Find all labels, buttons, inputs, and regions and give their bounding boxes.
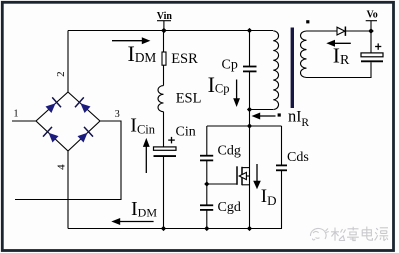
wire: bottom rail [68, 228, 282, 230]
svg-text:3: 3 [115, 109, 120, 120]
arrow IDM top (differential-mode current, rightward) [112, 37, 150, 44]
wire: Cdg to Cgd segment (gate node) [206, 160, 208, 205]
wire: node 1 AC stub (open left end) [12, 120, 36, 122]
wire: ESR to ESL [163, 65, 165, 85]
junction: MOSFET source on bottom rail [247, 226, 252, 231]
arrow ICp (downward) [233, 80, 240, 108]
wire: Cout bottom down and secondary bottom return [307, 62, 372, 77]
arrow ID (downward) [253, 164, 261, 189]
wire: Cdg branch down [206, 126, 208, 156]
wire: junction drop to parasitic-cap rail and MOSFET drain line [249, 110, 251, 229]
svg-text:4: 4 [55, 164, 67, 170]
svg-text:Cds: Cds [287, 150, 309, 165]
transformer T1 secondary winding [301, 31, 307, 78]
watermark text: 电 [362, 227, 372, 241]
wire: node 3 to lower-left AC return (right, down, left open end) [15, 121, 121, 200]
watermark logo [310, 228, 328, 239]
capacitor Cdg plates [200, 156, 213, 161]
capacitor Cds plates [276, 165, 287, 170]
arrow IDM bottom (leftward) [111, 218, 153, 225]
svg-text:Cin: Cin [176, 125, 196, 140]
svg-text:Cdg: Cdg [218, 144, 241, 159]
arrow nIR (leftward into primary) [252, 113, 276, 120]
diode D1 bridge node1 to node2 [46, 97, 62, 113]
diode D3 bridge node4 to node1 [43, 127, 59, 143]
wire: Vin branch down to ESR [163, 31, 165, 53]
junction: primary bottom / Cp bottom [247, 107, 252, 112]
wire: Cp bottom to primary-bottom junction [249, 71, 251, 109]
wire: Cds branch down [281, 126, 283, 165]
node Vo terminal lead [366, 21, 377, 31]
wire: bridge node 4 drop to bottom rail [67, 151, 69, 229]
junction: Vo node [368, 28, 374, 34]
watermark text: 源 [375, 228, 389, 241]
watermark text: 哥 [347, 227, 359, 241]
wire: ESL to Cin top plate [163, 112, 165, 147]
junction: Cin on bottom rail [161, 226, 166, 231]
junction: Vin tap on top rail [161, 28, 167, 34]
svg-text:Cp: Cp [222, 58, 238, 73]
polarity dot: primary winding [278, 113, 281, 116]
inductor ESL coil [158, 86, 164, 112]
wire: gate lead from gate node to MOSFET [207, 183, 237, 185]
wire: left riser from top rail down to bridge node 2 [67, 31, 69, 93]
polarity plus of Cin [168, 137, 175, 144]
svg-text:2: 2 [55, 71, 67, 77]
wire: Cgd bottom to bottom rail [206, 210, 208, 229]
svg-text:Vin: Vin [157, 11, 173, 22]
wire: Cds bottom to bottom rail end [281, 170, 283, 228]
wire: transformer primary bottom return [250, 109, 274, 111]
watermark text: 松 [331, 228, 346, 241]
node Vin terminal lead [157, 21, 171, 31]
junction: Cp tap on top rail [247, 28, 252, 33]
wire: Cp branch from top rail [249, 31, 251, 67]
polarity dot: secondary winding [306, 20, 309, 23]
svg-text:Vo: Vo [367, 9, 378, 20]
wire: secondary top to output diode and Vo [307, 30, 338, 32]
svg-text:ESR: ESR [171, 51, 198, 67]
svg-text:Cgd: Cgd [218, 200, 241, 215]
wire: Cin bottom to bottom rail [163, 156, 165, 228]
capacitor Cp plates [243, 67, 257, 72]
capacitor Cout electrolytic plates [361, 53, 383, 61]
svg-text:1: 1 [14, 109, 19, 120]
wire: parasitic capacitor rail Cdg-Cds [207, 125, 282, 127]
junction: parasitic rail center [247, 123, 252, 128]
bridge rectifier BR1 diamond body [36, 92, 100, 151]
capacitor Cin plates [154, 147, 177, 156]
diode D2 bridge node3 to node2 [75, 97, 91, 113]
transformer T1 core bar [291, 28, 294, 109]
resistor ESR body [162, 52, 166, 65]
arrow IR (leftward in secondary loop) [326, 40, 351, 47]
diode D5 output rectifier [337, 27, 345, 36]
capacitor Cgd plates [200, 205, 213, 210]
junction: gate node [204, 181, 209, 186]
junction: Cgd on bottom rail [204, 226, 209, 231]
arrow ICin (upward) [143, 138, 150, 173]
polarity plus of Cout [375, 43, 381, 49]
wire: top rail from bridge node2 riser to transformer primary top [68, 30, 273, 32]
diode D4 bridge node4 to node3 [78, 127, 94, 143]
svg-text:ESL: ESL [176, 91, 202, 107]
transformer T1 primary winding [273, 31, 278, 110]
wire: Vo junction down to output capacitor [370, 31, 372, 53]
MOSFET Q1 symbol [237, 166, 250, 185]
